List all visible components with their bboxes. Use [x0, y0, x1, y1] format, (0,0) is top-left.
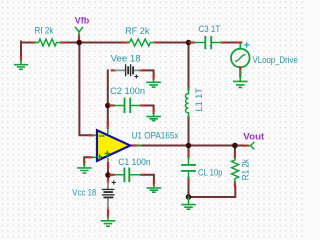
wire bottom node to R1 bottom [189, 187, 236, 198]
svg-text:CL 10p: CL 10p [198, 168, 222, 179]
capacitor CL [182, 152, 195, 182]
wire CL bottom to bottom node [188, 182, 190, 198]
capacitor C3 [190, 37, 224, 49]
wire Vcc junction down [107, 175, 109, 180]
wire op-amp plus input to ground corner [84, 157, 87, 162]
op-amp U1 plus input marker [98, 155, 102, 159]
svg-text:Vcc 18: Vcc 18 [72, 188, 96, 199]
op-amp U1 top supply pin [107, 122, 109, 134]
svg-text:C1 100n: C1 100n [118, 157, 150, 168]
wire op-amp bottom pin to Vcc junction [107, 168, 109, 176]
junction Vcc node [105, 172, 111, 178]
wire Vfb drop to op-amp minus input [79, 43, 90, 136]
op-amp U1 plus supply marker [105, 151, 109, 155]
wire L1 bottom to output node [188, 119, 190, 147]
svg-text:VLoop_Drive: VLoop_Drive [253, 55, 298, 66]
wire R1 top from output node [234, 146, 236, 156]
op-amp U1 minus input marker [100, 135, 104, 137]
resistor RI [32, 39, 65, 46]
resistor R1 [232, 154, 239, 187]
svg-text:Vee 18: Vee 18 [111, 53, 141, 64]
ground below VLoop_Drive [234, 67, 247, 87]
wire op-amp output to node [139, 145, 189, 147]
ground right of C2 [147, 110, 160, 121]
wire top horizontal middle segment [63, 42, 128, 44]
junction C2 node [105, 103, 111, 109]
wire L1 top from node [188, 43, 190, 88]
junction output node [186, 143, 192, 149]
ground top left [15, 57, 28, 69]
op-amp U1 bottom supply pin [107, 159, 109, 169]
wire Vee battery right to ground corner [143, 70, 154, 76]
junction RF/C3/L1 node [186, 40, 192, 46]
wire C3 to VLoop_Drive [223, 42, 240, 44]
ground right of C1 [147, 181, 160, 192]
ground below Vcc [102, 216, 115, 226]
wire left drop to ground [20, 42, 22, 59]
wire Vee battery left lead drop [107, 70, 109, 123]
ground below CL [182, 197, 195, 209]
svg-text:RI 2k: RI 2k [35, 26, 54, 37]
svg-text:U1 OPA165x: U1 OPA165x [132, 130, 179, 141]
wire C2 right to ground corner [143, 106, 154, 111]
wire top horizontal left segment [21, 42, 35, 44]
battery Vcc [103, 179, 116, 217]
net flag Vout [245, 142, 254, 148]
inductor L1 [185, 87, 188, 119]
battery Vee [112, 65, 144, 78]
wire output node to Vout flag [189, 145, 246, 147]
capacitor C2 [110, 99, 144, 113]
voltage source VLoop_Drive [231, 43, 250, 68]
svg-text:L1 1T: L1 1T [194, 88, 205, 112]
svg-text:R1 2k: R1 2k [240, 159, 251, 181]
capacitor C1 [110, 169, 144, 182]
ground below op-amp plus input [78, 162, 91, 173]
resistor RF [123, 39, 159, 46]
svg-text:C3 1T: C3 1T [199, 24, 221, 35]
svg-text:C2 100n: C2 100n [110, 86, 145, 97]
wire top horizontal right segment [157, 42, 190, 44]
svg-text:Vfb: Vfb [75, 15, 90, 26]
junction Vfb node [76, 40, 82, 46]
junction Vout node [232, 143, 238, 149]
op-amp U1 minus input pin [90, 134, 96, 136]
op-amp U1 plus input pin [88, 156, 96, 158]
op-amp U1 output pin [132, 144, 140, 146]
wire output node down to CL [188, 146, 190, 154]
svg-text:Vout: Vout [243, 131, 265, 142]
op-amp U1 body [97, 130, 130, 161]
wire C1 right to ground corner [144, 175, 154, 182]
junction bottom node [186, 194, 192, 200]
ground right of Vee [147, 75, 160, 87]
net flag Vfb [75, 27, 82, 39]
svg-text:RF 2k: RF 2k [125, 26, 150, 37]
